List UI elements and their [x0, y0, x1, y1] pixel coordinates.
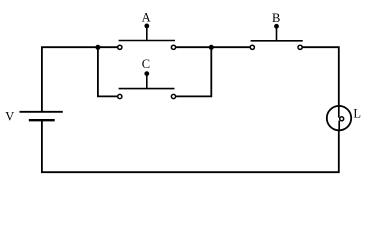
switch B actuator knob dot — [274, 24, 279, 29]
svg-text:V: V — [5, 110, 14, 124]
lamp filament loop — [340, 117, 344, 121]
junction node J1 — [95, 45, 100, 50]
switch A right terminal (open circle) — [171, 45, 175, 49]
wire: switch A right terminal to node J2 — [176, 46, 212, 48]
svg-text:B: B — [272, 11, 280, 25]
switch A actuator knob dot — [144, 24, 149, 29]
switch C actuator knob dot — [144, 71, 149, 76]
switch C (push button) — [118, 71, 176, 98]
wire: switch C right terminal up to node J2 — [176, 47, 212, 96]
wire: battery positive lead up and across to node J1 — [42, 47, 98, 111]
wire: node J2 to switch B left terminal — [211, 46, 250, 48]
svg-text:L: L — [353, 107, 361, 121]
svg-text:C: C — [142, 57, 150, 71]
junction node J2 — [209, 45, 214, 50]
battery V (cell) — [20, 112, 63, 120]
switch A (push button) — [118, 24, 176, 50]
battery long plate (positive) — [20, 111, 63, 113]
switch A left terminal (open circle) — [118, 45, 122, 49]
wire: switch B right terminal across and down to lamp L — [302, 47, 339, 106]
switch A bridge bar — [119, 40, 175, 42]
switch B actuator stem — [276, 27, 278, 41]
switch B (push button) — [250, 24, 303, 50]
svg-text:A: A — [142, 11, 151, 25]
battery short plate (negative) — [29, 119, 55, 121]
lamp envelope circle — [327, 106, 351, 130]
switch B bridge bar — [251, 40, 303, 42]
switch C bridge bar — [119, 88, 175, 90]
switch A actuator stem — [146, 27, 148, 41]
wire: lamp L down, along bottom, up to battery negative — [42, 120, 339, 172]
switch B left terminal (open circle) — [250, 45, 254, 49]
switch C left terminal (open circle) — [118, 94, 122, 98]
switch C actuator stem — [146, 74, 148, 88]
switch C right terminal (open circle) — [171, 94, 175, 98]
lamp L — [327, 106, 351, 131]
lamp filament top lead — [338, 106, 340, 118]
switch B right terminal (open circle) — [298, 45, 302, 49]
wire: node J1 down and across to switch C left terminal — [98, 47, 118, 96]
wire: node J1 to switch A left terminal — [98, 46, 118, 48]
lamp filament bottom lead — [338, 121, 340, 131]
